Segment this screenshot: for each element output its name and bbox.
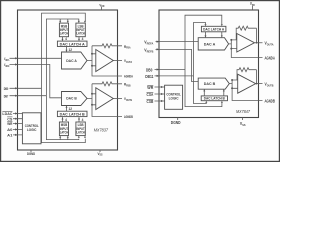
svg-text:MX7847: MX7847	[236, 109, 250, 114]
svg-text:DB7: DB7	[4, 94, 9, 98]
svg-text:DAC B: DAC B	[204, 82, 216, 86]
svg-text:DAC LATCH B: DAC LATCH B	[60, 112, 86, 116]
svg-text:LOGIC: LOGIC	[27, 128, 37, 132]
svg-text:DAC A: DAC A	[66, 59, 77, 63]
svg-text:AGNDB: AGNDB	[124, 115, 133, 119]
svg-text:VREFB: VREFB	[4, 63, 9, 68]
svg-text:LATCH: LATCH	[77, 130, 86, 134]
svg-text:DB11: DB11	[145, 74, 154, 79]
svg-text:4: 4	[82, 118, 84, 122]
svg-text:DAC LATCH A: DAC LATCH A	[60, 42, 86, 46]
svg-text:4: 4	[65, 37, 67, 41]
svg-text:AGNDB: AGNDB	[265, 98, 275, 103]
svg-text:LATCH: LATCH	[60, 32, 69, 36]
svg-text:RFBB: RFBB	[124, 83, 131, 88]
svg-text:CSA: CSA	[147, 92, 154, 97]
svg-text:DAC LATCH B: DAC LATCH B	[204, 97, 225, 101]
svg-text:VDD: VDD	[99, 3, 104, 8]
svg-text:12: 12	[69, 107, 73, 111]
svg-text:DB0: DB0	[146, 67, 153, 72]
svg-text:VOUTB: VOUTB	[265, 82, 275, 88]
svg-text:12: 12	[69, 48, 73, 52]
svg-text:DB0: DB0	[4, 87, 9, 91]
svg-text:LDAC: LDAC	[2, 112, 12, 116]
svg-text:WR: WR	[7, 122, 12, 126]
svg-text:VOUTA: VOUTA	[124, 59, 132, 64]
svg-text:AGNDA: AGNDA	[265, 55, 275, 60]
svg-text:VREFA: VREFA	[144, 40, 154, 46]
svg-text:CSB: CSB	[147, 99, 154, 104]
svg-text:MX7837: MX7837	[94, 128, 109, 133]
svg-text:DAC LATCH A: DAC LATCH A	[203, 28, 224, 32]
svg-text:CS: CS	[7, 117, 13, 121]
svg-text:LOGIC: LOGIC	[169, 97, 180, 101]
svg-text:RFBA: RFBA	[124, 45, 131, 50]
svg-text:VOUTB: VOUTB	[124, 97, 132, 102]
svg-text:4: 4	[65, 118, 67, 122]
svg-text:LATCH: LATCH	[77, 32, 86, 36]
svg-text:A0: A0	[7, 128, 12, 132]
svg-text:VREFA: VREFA	[4, 57, 9, 62]
svg-text:DAC B: DAC B	[66, 97, 77, 101]
svg-text:DAC A: DAC A	[204, 42, 216, 46]
svg-text:VDD: VDD	[250, 1, 255, 7]
svg-text:VOUTA: VOUTA	[265, 41, 275, 47]
svg-text:WR: WR	[147, 85, 153, 90]
svg-text:4: 4	[82, 37, 84, 41]
svg-text:DGND: DGND	[171, 120, 181, 125]
svg-text:AGNDA: AGNDA	[124, 75, 133, 79]
svg-text:VREFB: VREFB	[144, 47, 154, 53]
svg-text:VSS: VSS	[98, 152, 103, 157]
svg-text:DGND: DGND	[27, 152, 35, 156]
svg-text:LATCH: LATCH	[60, 130, 69, 134]
svg-text:VSS: VSS	[240, 121, 246, 127]
svg-text:A1: A1	[7, 134, 12, 138]
